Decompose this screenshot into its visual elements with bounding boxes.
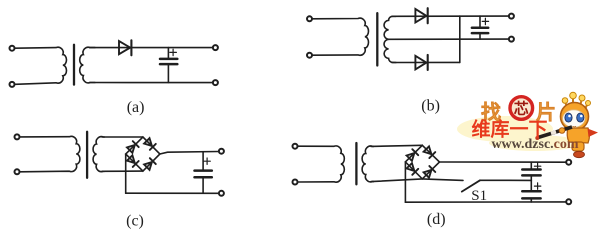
mascot head	[561, 103, 589, 131]
capacitor C(b) lead bottom	[479, 34, 481, 39]
plus sign C2(d)	[534, 183, 540, 189]
mascot shoe	[574, 151, 585, 157]
wire b center tap rail	[389, 38, 509, 40]
wire d secondary bottom to bridge	[371, 179, 422, 182]
wire d switch feed	[422, 179, 463, 181]
mascot eyes	[565, 113, 572, 122]
mascot body	[567, 128, 589, 143]
terminal c-in-bottom	[15, 169, 20, 174]
terminal b-in-bottom	[307, 53, 312, 58]
transformer T(b) primary winding	[313, 18, 369, 55]
transformer T(c) primary winding	[20, 136, 80, 171]
diode D(a)	[119, 41, 130, 54]
terminal a-in-bottom	[10, 82, 15, 87]
capacitor C2(d) lead bottom	[530, 199, 532, 202]
bridge diode d-LL	[406, 163, 418, 175]
bridge diode c-LR	[144, 158, 156, 170]
svg-text:芯: 芯	[514, 100, 529, 118]
capacitor C(c) lead bottom	[202, 178, 204, 193]
wire b top rail	[392, 15, 508, 17]
terminal d-out-bottom	[566, 199, 571, 204]
terminal b-out-bottom	[509, 37, 514, 42]
terminal a-out-bottom	[213, 80, 218, 85]
wire c minus vertical	[125, 154, 127, 193]
capacitor C(b) lead top	[479, 16, 481, 27]
terminal a-in-top	[10, 46, 15, 51]
terminal d-in-bottom	[293, 180, 298, 185]
capacitor C1(d) lead bottom	[530, 177, 532, 181]
capacitor C(a) plates	[160, 58, 177, 61]
wire c secondary top to bridge	[102, 136, 143, 138]
watermark magnifier ring	[510, 97, 533, 120]
capacitor C(c) plates	[195, 169, 212, 172]
capacitor C(b) plates	[472, 27, 488, 30]
mascot crown stems	[566, 99, 588, 109]
mascot telescope	[538, 127, 572, 138]
bridge diode d-UR	[423, 146, 435, 158]
bridge diamond (c)	[126, 137, 160, 171]
wire d switch to caps	[480, 179, 531, 181]
capacitor C(a) lead top	[167, 48, 169, 58]
mascot mouth	[573, 125, 577, 128]
wire b lower diode rail	[392, 61, 460, 63]
plus sign C(b)	[482, 18, 488, 24]
transformer T(d) primary winding	[298, 146, 344, 182]
svg-text:(a): (a)	[127, 99, 145, 116]
svg-text:(b): (b)	[421, 98, 440, 115]
capacitor C(a) lead bottom	[167, 65, 169, 82]
svg-text:(c): (c)	[126, 213, 144, 230]
wire a top rail	[90, 47, 213, 49]
capacitor C2(d) plates	[522, 190, 540, 193]
plus sign C1(d)	[534, 163, 540, 169]
terminal b-in-top	[307, 16, 312, 21]
svg-text:S1: S1	[471, 188, 487, 204]
bridge diode d-LR	[423, 166, 435, 178]
wire c plus rail	[160, 152, 219, 155]
terminal d-out-top	[566, 160, 571, 165]
wire d plus rail	[440, 161, 566, 163]
svg-text:www.dzsc.com: www.dzsc.com	[491, 137, 578, 152]
wire c bottom rail	[126, 192, 219, 194]
bridge diode c-UR	[144, 138, 156, 150]
wire c secondary bottom to bridge	[102, 170, 143, 172]
switch S1 blade	[462, 180, 480, 191]
terminal d-in-top	[293, 144, 298, 149]
transformer T(b) core	[376, 13, 378, 65]
mascot crown balls	[562, 98, 568, 104]
wire d bottom rail	[405, 201, 565, 203]
wire d minus vertical	[404, 162, 406, 202]
mascot hand	[559, 128, 565, 134]
transformer T(d) secondary winding	[362, 146, 373, 182]
diode D1(b)	[415, 9, 426, 22]
capacitor C2(d) lead top	[530, 180, 532, 190]
transformer T(a) secondary winding	[80, 47, 95, 83]
capacitor C1(d) lead top	[530, 162, 532, 168]
watermark glow	[457, 116, 553, 142]
capacitor C1(d) plates	[522, 168, 540, 171]
bridge diode c-LL	[127, 155, 139, 167]
terminal c-out-bottom	[219, 191, 224, 196]
terminal a-out-top	[213, 45, 218, 50]
plus sign C(c)	[204, 158, 210, 164]
wire d secondary top to bridge	[371, 145, 422, 146]
wire b joining vertical	[459, 16, 461, 62]
transformer T(a) core	[73, 45, 75, 85]
terminal c-out-top	[219, 149, 224, 154]
bridge diode d-UL	[406, 149, 418, 161]
transformer T(b) secondary winding with center tap	[384, 16, 396, 62]
terminal c-in-top	[15, 134, 20, 139]
capacitor C(c) lead top	[202, 152, 204, 170]
mascot legs	[572, 142, 584, 151]
transformer T(d) core	[355, 143, 357, 184]
bridge diode c-UL	[127, 141, 139, 153]
transformer T(c) secondary winding	[93, 137, 104, 172]
mascot face	[563, 110, 585, 128]
wire a bottom rail	[90, 82, 213, 84]
diode D2(b)	[415, 56, 426, 70]
transformer T(c) core	[86, 132, 88, 178]
bridge diamond (d)	[405, 145, 439, 179]
mascot red flag	[588, 129, 599, 138]
svg-text:(d): (d)	[427, 211, 446, 228]
terminal b-out-top	[509, 14, 514, 19]
plus sign C(a)	[170, 49, 177, 55]
transformer T(a) primary winding	[15, 47, 66, 84]
